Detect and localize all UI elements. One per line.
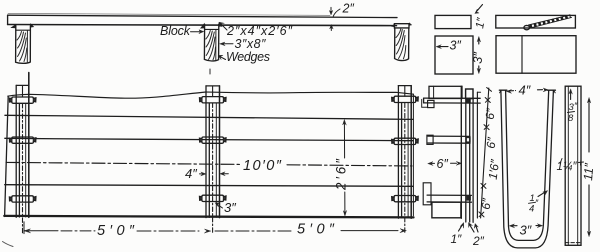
dim chain right of section	[479, 88, 492, 219]
clamp collar S2-b	[200, 137, 227, 143]
block B2 (middle, hatched)	[204, 24, 218, 61]
stud S1 overshoot stroke	[28, 73, 30, 86]
clamp strap (top, horizontal)	[424, 98, 481, 103]
board line 2	[5, 138, 413, 140]
bar bottom dashed line	[565, 242, 580, 244]
leader from Block label	[191, 31, 200, 33]
stud S1 centerline	[22, 86, 24, 97]
clamp collar S2-c	[200, 195, 227, 201]
stray pencil dash bottom-left	[3, 242, 14, 247]
dim tick 2in upper arrow	[330, 7, 332, 11]
leader arrow to block B2 side	[223, 43, 234, 45]
tick	[485, 98, 490, 103]
sheathing board edge (vertical 1in)	[460, 86, 462, 218]
arrow inside bar top	[569, 89, 572, 100]
clamp strap (middle, horizontal)	[428, 136, 470, 143]
label 1in plate thickness	[475, 5, 483, 14]
stud S2 (middle clamp upright)	[206, 69, 220, 234]
stirrup outer edge	[501, 90, 554, 248]
dim 3in block height	[477, 37, 480, 74]
label 4in stud width	[240, 156, 284, 172]
wedge thin-end loop	[524, 25, 530, 29]
svg-text:1″: 1″	[474, 16, 488, 29]
dim 11in bar length	[587, 98, 590, 237]
stud S3 centerline	[404, 86, 406, 96]
wedge piece (plan view)	[496, 36, 576, 73]
clamp collar S2-a	[200, 97, 227, 103]
clamp collar S3-c	[392, 196, 419, 202]
wedge tick (left of B3)	[392, 24, 395, 26]
arrow right to stud S2 left edge	[200, 173, 204, 175]
leader slash from 2in label	[333, 9, 340, 16]
clamp collar S1-c	[9, 196, 36, 202]
wedge pair piece (side view with wedge)	[496, 15, 576, 28]
bar outline	[565, 86, 581, 245]
label 1/4in strap thickness	[529, 193, 535, 215]
stud S1 (left clamp upright)	[16, 73, 29, 234]
block B3 (right end, hatched)	[395, 28, 409, 61]
stirrup top end caps	[499, 89, 555, 91]
leader arrow to wedge at block B2 bottom	[220, 57, 226, 60]
wedge in clamp (middle)	[466, 138, 470, 142]
clamp bar edge (vertical)	[476, 92, 478, 218]
wedge block (plan view, square)	[435, 36, 473, 74]
stud S3 (right clamp upright)	[398, 86, 411, 233]
clamp collar S3-a	[392, 96, 419, 102]
dim tick 2in lower arrow	[330, 28, 332, 31]
leader arrow to collar S2-c	[218, 205, 223, 209]
waler (bottom 2x6)	[432, 202, 461, 218]
dim line 5'0 left span	[24, 222, 211, 234]
block B1 (left, hatched)	[16, 26, 31, 64]
clamp collar S1-b	[9, 137, 36, 143]
svg-text:3″: 3″	[471, 51, 486, 64]
clamp strap (bottom, horizontal)	[427, 195, 471, 202]
wedge diagonal (striped)	[530, 16, 571, 27]
wedge in clamp (top)	[466, 98, 470, 103]
wedge (left of block B1)	[11, 25, 15, 28]
panel right edge	[412, 94, 414, 216]
wedge (right of block B2)	[219, 23, 222, 27]
svg-text:3″: 3″	[450, 39, 462, 53]
cleat top (post head)	[466, 89, 473, 99]
wedge piece divider	[521, 36, 523, 73]
stud S2 centerline	[212, 86, 214, 96]
arrow left to stud S2 right edge	[224, 173, 229, 175]
waler (top 2x6)	[429, 86, 462, 98]
tick	[484, 125, 489, 130]
tick top	[487, 88, 492, 92]
tick	[479, 212, 484, 217]
stirrup inner edge	[506, 90, 549, 240]
dim 2'6 panel height	[343, 120, 347, 216]
leader arrow to block B2 top	[221, 24, 228, 31]
wedge in clamp (bottom)	[467, 196, 471, 200]
bar inner edges	[568, 86, 577, 245]
wedge (right of block B1)	[31, 24, 34, 27]
wedge tick (right of B3)	[409, 23, 411, 26]
wedge block plate (side view)	[435, 15, 471, 28]
wedge (left of block B2)	[201, 24, 205, 29]
board line 3	[5, 185, 414, 187]
panel bottom edge	[4, 216, 413, 218]
strap end block (middle)	[427, 135, 433, 144]
clamp collar S1-a	[9, 97, 36, 103]
strap end cap (bottom left)	[423, 183, 431, 205]
panel top wavy edge	[8, 92, 414, 98]
cleat edge (vertical 2in)	[469, 98, 471, 222]
tick	[481, 183, 486, 188]
stud S2 overshoot	[209, 69, 211, 74]
label 3/8in bar thickness	[568, 102, 575, 124]
dim line 5'0 right span	[215, 229, 406, 233]
wedge cap on block B3	[394, 24, 409, 28]
plank 2in top board (plan/side view)	[8, 15, 397, 17]
block under waler (top left)	[428, 100, 434, 107]
centerline dash-dot 10ft	[6, 162, 240, 164]
board line 1	[5, 115, 413, 119]
clamp collar S3-b	[392, 138, 419, 144]
panel left edge	[5, 96, 9, 216]
